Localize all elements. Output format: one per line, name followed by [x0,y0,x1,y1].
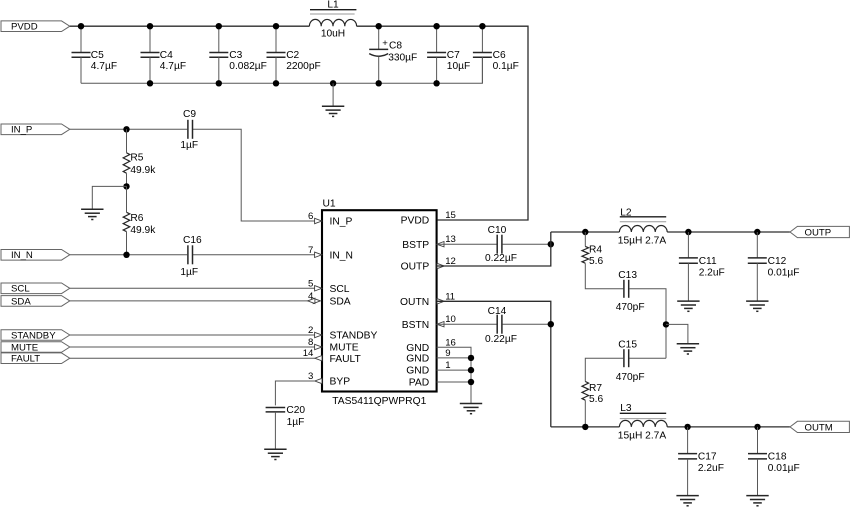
svg-text:0.22µF: 0.22µF [485,253,517,264]
svg-text:1µF: 1µF [287,417,305,428]
svg-text:STANDBY: STANDBY [11,330,56,341]
net flag STANDBY [1,330,70,342]
capacitor C10 0.22uF [485,225,517,264]
net flag PVDD [1,21,70,33]
wire: BSTN pin 10 to C14 [437,323,497,325]
svg-text:OUTP: OUTP [401,262,430,273]
svg-text:+: + [382,38,388,49]
svg-text:C15: C15 [618,339,637,350]
junction C11 [685,229,691,235]
svg-text:FAULT: FAULT [11,354,40,365]
wire: L2 row left [551,231,620,233]
capacitor C3 0.082uF [209,26,267,83]
wire: C15 to R7 [585,358,623,381]
capacitor C20 1uF [266,405,306,449]
svg-text:MUTE: MUTE [330,343,359,354]
wire: FAULT to pin 14 [70,357,315,359]
wire: PAD [437,381,471,383]
ground: zobel network [677,344,699,354]
svg-text:GND: GND [406,343,429,354]
wire: BYP pin 3 to C20 [275,381,314,405]
inductor L1 10uH [309,0,356,40]
pin 3 (BYP) of U1 [308,371,350,388]
junction top rail x=436.6 [433,23,439,29]
wire: L2 node to R4 [584,232,586,246]
wire: L3 row left [551,426,620,428]
capacitor C8 330uF polarized [369,26,417,83]
junction ground rail x=276 [273,80,279,86]
junction ground rail x=378.7 [376,80,382,86]
svg-text:10µF: 10µF [447,61,470,72]
junction ground rail x=150 [147,80,153,86]
svg-text:8: 8 [308,337,313,348]
svg-text:SCL: SCL [11,284,30,295]
junction top rail x=378.7 [376,23,382,29]
wire: IN_P flag to C9 [70,128,187,130]
net flag OUTM [790,421,849,433]
svg-text:OUTP: OUTP [805,228,832,239]
junction top rail x=150 [147,23,153,29]
junction L2 input / R4 [582,229,588,235]
wire: GND pin 1 [437,369,471,371]
wire: IN_P node to R5 [126,129,128,153]
svg-text:49.9k: 49.9k [130,165,156,176]
ground: C20 [264,449,286,459]
net flag SDA [1,296,70,308]
pin 12 (OUTP) of U1 [401,256,456,273]
inductor L3 15uH 2.7A [618,403,667,442]
wire: OUTP pin 12 up to L2 row [437,232,551,266]
ground: C17 [676,496,698,506]
wire: L2 row right to OUTP flag [667,231,790,233]
svg-text:13: 13 [445,234,456,245]
pin 11 (OUTN) of U1 [400,291,455,308]
wire: SDA to pin 4 [70,300,315,302]
wire: rail to ground stem [332,83,334,106]
pin 7 (IN_N) of U1 [308,245,353,262]
svg-text:5: 5 [308,278,313,289]
junction top rail x=81 [78,23,84,29]
svg-text:OUTM: OUTM [805,422,833,433]
svg-text:C12: C12 [768,256,787,267]
capacitor C9 1uF [180,109,198,151]
capacitor C4 4.7uF [141,26,187,83]
ground: C12 [746,301,768,311]
svg-text:C17: C17 [698,452,717,463]
resistor R4 5.6 [582,245,603,267]
junction top rail x=276 [273,23,279,29]
svg-text:IN_P: IN_P [330,217,353,228]
svg-text:C10: C10 [488,225,507,236]
svg-text:BSTN: BSTN [402,320,429,331]
svg-text:C14: C14 [488,306,507,317]
capacitor C11 2.2uF [679,232,725,301]
svg-text:L1: L1 [327,0,339,11]
svg-text:9: 9 [445,348,450,359]
svg-text:C20: C20 [286,405,305,416]
junction zobel center [663,321,669,327]
svg-text:IN_N: IN_N [330,250,353,261]
svg-text:OUTN: OUTN [400,297,429,308]
svg-text:15: 15 [445,210,456,221]
wire: top section ground rail [81,57,482,83]
resistor R7 5.6 [582,382,603,406]
svg-text:PVDD: PVDD [11,22,38,33]
wire: R5 to center node [126,173,128,186]
wire: SCL to pin 5 [70,287,315,289]
wire: junction to C15 [629,357,666,359]
wire: C16 to pin 7 [193,254,315,256]
svg-text:0.082µF: 0.082µF [229,61,267,72]
svg-text:4.7µF: 4.7µF [91,61,117,72]
net flag MUTE [1,342,70,354]
capacitor C7 10uF [427,26,470,83]
pin 2 (STANDBY) of U1 [308,325,377,342]
pin 13 (BSTP) of U1 [402,234,456,251]
junction GND bus pin 9 [468,355,474,361]
svg-text:1: 1 [445,360,450,371]
svg-text:2200pF: 2200pF [286,61,321,72]
svg-text:C4: C4 [160,50,173,61]
svg-text:PVDD: PVDD [401,216,430,227]
wire: GND pin 16 to ground bus [437,347,471,403]
svg-text:SDA: SDA [330,297,351,308]
svg-text:STANDBY: STANDBY [330,331,378,342]
wire: STANDBY to pin 2 [70,334,315,336]
svg-text:6: 6 [308,211,313,222]
junction top rail x=218.8 [216,23,222,29]
pin 15 (PVDD) of U1 [401,210,456,227]
resistor R5 49.9k [123,153,156,176]
wire: MUTE to pin 8 [70,346,315,348]
junction L3 input / R7 [582,424,588,430]
svg-text:C11: C11 [699,256,717,267]
junction ground rail x=436.6 [433,80,439,86]
capacitor C15 470pF [616,339,645,382]
capacitor C17 2.2uF [678,427,724,496]
net flag OUTP [790,226,849,238]
capacitor C16 1uF [180,235,202,278]
svg-text:C2: C2 [286,50,299,61]
resistor R6 49.9k [123,212,156,236]
capacitor C14 0.22uF [485,306,517,345]
svg-text:0.01µF: 0.01µF [768,463,800,474]
wire: center node to R6 [126,186,128,212]
ground: top filter section [322,106,344,116]
pin 10 (BSTN) of U1 [402,314,456,331]
svg-text:IN_N: IN_N [11,250,33,261]
wire: zobel junction to ground [666,324,688,343]
svg-text:C13: C13 [618,270,637,281]
junction IN_N node [123,252,129,258]
svg-text:BSTP: BSTP [402,240,429,251]
wire: C13 to C15 junction [629,289,666,358]
svg-text:C16: C16 [183,235,202,246]
wire: R4 to C13 [585,263,623,289]
junction GND bus PAD [468,379,474,385]
svg-text:C7: C7 [447,50,460,61]
svg-text:GND: GND [406,366,429,377]
pin 4 (SDA) of U1 [308,291,351,308]
junction C18 [754,424,760,430]
wire: OUTN pin 11 down to L3 row [437,301,551,427]
svg-text:49.9k: 49.9k [130,225,156,236]
pin 6 (IN_P) of U1 [308,211,352,228]
ground: C18 [746,496,768,506]
net flag SCL [1,283,70,295]
svg-text:2: 2 [308,325,313,336]
pin 8 (MUTE) of U1 [308,337,359,354]
capacitor C2 2200pF [267,26,321,83]
svg-text:0.01µF: 0.01µF [768,267,800,278]
svg-text:4.7µF: 4.7µF [160,61,186,72]
svg-text:15µH 2.7A: 15µH 2.7A [618,235,667,246]
svg-text:0.1µF: 0.1µF [493,61,519,72]
svg-text:BYP: BYP [330,377,351,388]
svg-text:C18: C18 [768,452,787,463]
junction C12 [754,229,760,235]
junction C14/OUTN net [548,321,554,327]
svg-text:15µH 2.7A: 15µH 2.7A [618,431,667,442]
svg-text:R4: R4 [589,245,602,256]
ground: C11 [677,301,699,311]
wire: C10 to OUTP net [503,243,551,245]
wire: PVDD rail right of L1 down to pin 15 [357,26,528,220]
junction ground rail x=218.8 [216,80,222,86]
svg-text:PAD: PAD [409,378,429,389]
svg-text:SCL: SCL [330,284,350,295]
junction ground rail x=333.1 [330,80,336,86]
capacitor C13 470pF [616,270,645,313]
svg-text:C5: C5 [91,50,104,61]
junction C10/OUTP net [548,241,554,247]
pin 5 (SCL) of U1 [308,278,350,295]
svg-text:L3: L3 [620,403,632,414]
svg-text:1µF: 1µF [180,267,198,278]
wire: PVDD rail left of L1 [70,25,310,27]
svg-text:3: 3 [308,371,313,382]
svg-text:5.6: 5.6 [589,256,603,267]
wire: midpoint to ground [92,186,126,209]
wire: BSTP pin 13 to C10 [437,243,497,245]
svg-text:C3: C3 [229,50,242,61]
net flag IN_N [1,250,70,262]
net flag FAULT [1,353,70,365]
svg-text:2.2uF: 2.2uF [698,463,724,474]
svg-text:470pF: 470pF [616,302,645,313]
wire: C14 to OUTN net [503,323,551,325]
junction top rail x=482.4 [479,23,485,29]
svg-text:470pF: 470pF [616,372,645,383]
net flag IN_P [1,124,70,136]
svg-text:7: 7 [308,245,313,256]
capacitor C6 0.1uF [473,26,519,83]
junction C17 [684,424,690,430]
svg-text:C8: C8 [389,41,402,52]
svg-text:C9: C9 [183,109,196,120]
pin PAD (PAD) of U1 [409,378,429,389]
wire: L3 row right to OUTM flag [667,426,790,428]
wire: IN_N flag to C16 [70,254,187,256]
svg-text:GND: GND [406,354,429,365]
svg-text:0.22µF: 0.22µF [485,334,517,345]
wire: GND pin 9 [437,357,471,359]
svg-text:2.2uF: 2.2uF [699,267,725,278]
junction GND bus pin 1 [468,367,474,373]
svg-text:10: 10 [445,314,456,325]
svg-text:R5: R5 [130,153,143,164]
capacitor C18 0.01uF [748,427,800,496]
pin 1 (GND) of U1 [406,360,450,377]
svg-text:R7: R7 [589,383,602,394]
svg-text:330µF: 330µF [388,52,417,63]
svg-text:FAULT: FAULT [330,354,362,365]
wire: C9 to pin 6 [193,129,315,221]
svg-text:1µF: 1µF [180,140,198,151]
svg-text:TAS5411QPWPRQ1: TAS5411QPWPRQ1 [332,396,426,407]
op-amp/IC U1 TAS5411QPWPRQ1 [322,198,437,407]
pin 16 (GND) of U1 [406,337,456,354]
wire: R6 to IN_N node [126,232,128,255]
svg-text:SDA: SDA [11,296,31,307]
svg-text:C6: C6 [493,50,506,61]
pin 9 (GND) of U1 [406,348,450,365]
svg-text:R6: R6 [130,213,143,224]
svg-text:IN_P: IN_P [11,125,32,136]
junction IN_P node [123,126,129,132]
capacitor C5 4.7uF [72,26,118,83]
svg-text:U1: U1 [323,198,336,209]
ground: input bias divider [81,209,103,219]
wire: R7 to L3 node [584,400,586,427]
junction R5/R6 midpoint [123,183,129,189]
svg-text:14: 14 [303,348,314,359]
svg-text:MUTE: MUTE [11,342,38,353]
svg-text:16: 16 [445,337,456,348]
inductor L2 15uH 2.7A [618,207,667,246]
svg-text:5.6: 5.6 [589,394,603,405]
svg-text:10uH: 10uH [321,29,345,40]
pin 14 (FAULT) of U1 [303,348,362,365]
capacitor C12 0.01uF [748,232,800,301]
ground: IC GND/PAD [460,404,482,414]
